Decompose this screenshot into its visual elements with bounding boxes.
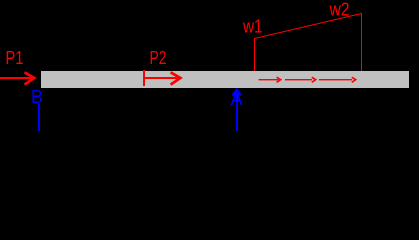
distributed load top slant line <box>255 14 362 39</box>
svg-text:w1: w1 <box>242 16 262 36</box>
support A reaction arrow head <box>233 90 241 96</box>
force arrow P2 head <box>171 72 181 84</box>
svg-text:P2: P2 <box>150 48 167 68</box>
distributed load arrow 2 head <box>312 77 316 82</box>
distributed load arrow 3 shaft <box>319 79 352 80</box>
distributed load arrow 3 head <box>352 77 356 82</box>
force arrow P1 shaft <box>0 77 32 79</box>
distributed load arrow 1 shaft <box>259 79 279 80</box>
support B reaction line <box>38 104 40 131</box>
beam <box>41 71 409 88</box>
support A reaction arrow shaft <box>236 90 238 131</box>
force arrow P2 shaft <box>143 77 178 79</box>
distributed load right ordinate line <box>361 13 362 71</box>
svg-text:B: B <box>31 87 43 107</box>
force arrow P1 head <box>25 72 35 84</box>
force P2 tail tick <box>143 70 145 86</box>
distributed load arrow 1 head <box>277 77 281 82</box>
distributed load arrow 2 shaft <box>285 79 312 80</box>
distributed load left ordinate line <box>254 38 255 71</box>
svg-text:P1: P1 <box>6 48 24 68</box>
